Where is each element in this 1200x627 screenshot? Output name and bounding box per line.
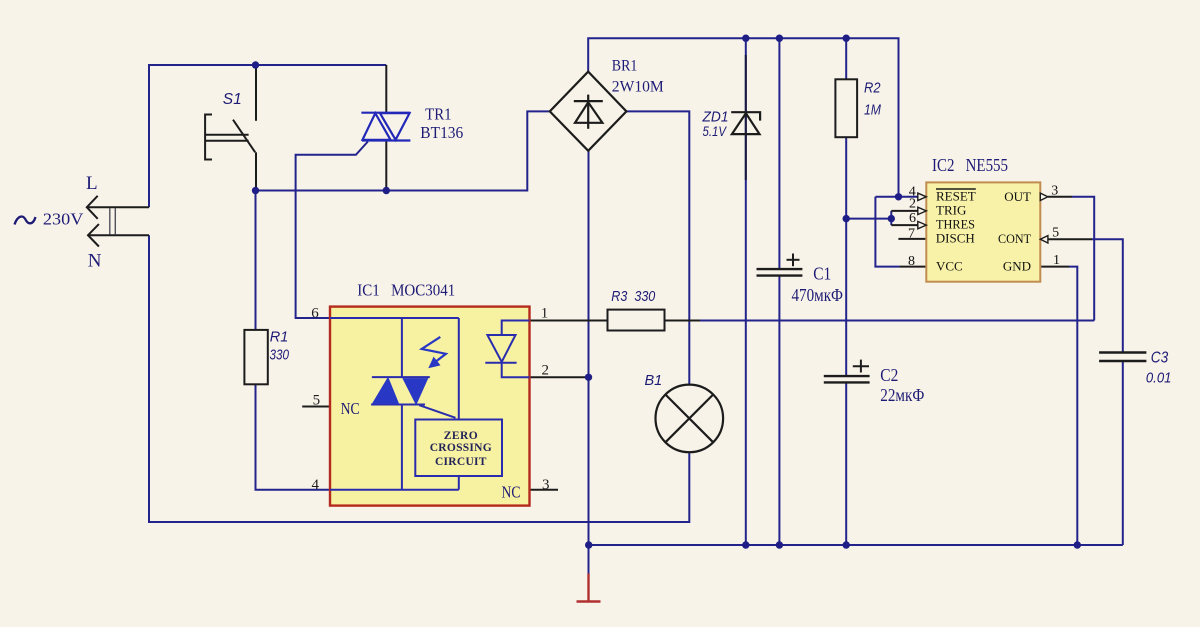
svg-text:1: 1 — [541, 306, 549, 322]
svg-text:R1: R1 — [270, 330, 289, 346]
svg-text:5: 5 — [313, 393, 321, 409]
svg-text:GND: GND — [1003, 258, 1031, 273]
svg-text:4: 4 — [312, 477, 320, 493]
svg-text:CROSSING: CROSSING — [430, 442, 492, 454]
svg-text:CIRCUIT: CIRCUIT — [435, 456, 487, 468]
svg-text:B1: B1 — [645, 373, 663, 389]
svg-text:THRES: THRES — [936, 217, 975, 232]
svg-text:22мкФ: 22мкФ — [880, 385, 924, 405]
svg-text:2: 2 — [542, 363, 550, 379]
svg-text:C3: C3 — [1151, 349, 1169, 366]
svg-text:2W10M: 2W10M — [612, 79, 664, 96]
svg-text:C1: C1 — [813, 264, 831, 284]
svg-text:C2: C2 — [880, 365, 898, 385]
svg-text:RESET: RESET — [936, 189, 976, 204]
svg-text:TRIG: TRIG — [936, 203, 966, 218]
svg-text:CONT: CONT — [998, 231, 1031, 246]
svg-text:5.1V: 5.1V — [703, 123, 728, 139]
svg-text:0.01: 0.01 — [1146, 370, 1172, 387]
svg-text:DISCH: DISCH — [936, 231, 975, 246]
svg-text:330: 330 — [270, 347, 290, 363]
svg-text:BT136: BT136 — [420, 123, 463, 142]
svg-text:7: 7 — [908, 226, 915, 241]
svg-text:R3 330: R3 330 — [611, 289, 655, 305]
svg-text:470мкФ: 470мкФ — [792, 285, 844, 305]
svg-text:1M: 1M — [864, 103, 882, 119]
svg-text:N: N — [88, 251, 102, 272]
svg-text:1: 1 — [1053, 253, 1060, 268]
svg-text:8: 8 — [908, 254, 915, 269]
svg-text:NC: NC — [341, 399, 360, 418]
svg-text:R2: R2 — [864, 81, 881, 97]
svg-text:ZERO: ZERO — [444, 430, 478, 442]
svg-text:2: 2 — [909, 197, 916, 212]
svg-text:NC: NC — [502, 483, 521, 502]
svg-text:S1: S1 — [223, 91, 242, 108]
svg-text:L: L — [86, 173, 98, 194]
svg-text:VCC: VCC — [936, 258, 963, 273]
svg-text:BR1: BR1 — [612, 58, 638, 75]
svg-text:3: 3 — [542, 477, 550, 493]
svg-text:6: 6 — [909, 211, 916, 226]
svg-text:230V: 230V — [43, 210, 84, 229]
svg-text:6: 6 — [311, 306, 319, 322]
svg-text:IC1 MOC3041: IC1 MOC3041 — [357, 280, 455, 299]
svg-text:3: 3 — [1051, 183, 1058, 198]
svg-text:5: 5 — [1052, 226, 1059, 241]
svg-text:TR1: TR1 — [425, 105, 452, 124]
svg-text:OUT: OUT — [1004, 189, 1031, 204]
svg-text:IC2 NE555: IC2 NE555 — [932, 155, 1008, 175]
